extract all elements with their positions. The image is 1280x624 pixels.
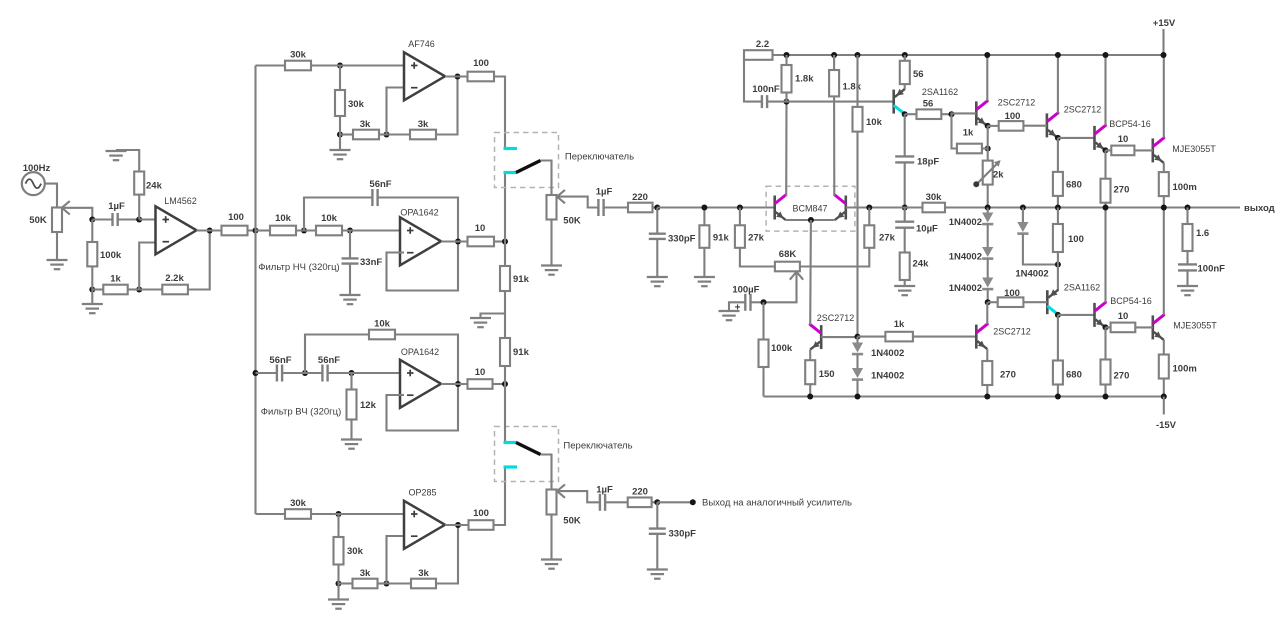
svg-text:2.2k: 2.2k bbox=[165, 273, 184, 284]
transistor Q9 BCP54-16 bbox=[1095, 296, 1152, 327]
capacitor C14 100nF bbox=[1178, 251, 1225, 275]
svg-text:1N4002: 1N4002 bbox=[1015, 269, 1048, 280]
svg-text:выход: выход bbox=[1244, 203, 1275, 214]
transistor Q10 MJE3055T bbox=[1153, 315, 1217, 340]
node X junction bbox=[654, 205, 660, 211]
svg-text:2SC2712: 2SC2712 bbox=[1064, 105, 1102, 115]
svg-text:91k: 91k bbox=[513, 347, 530, 358]
svg-text:100nF: 100nF bbox=[1198, 264, 1226, 275]
wire source to pot bbox=[45, 184, 57, 208]
resistor R38 1k bbox=[952, 114, 982, 153]
feedback loop U3 -in bbox=[387, 242, 459, 291]
svg-text:-15V: -15V bbox=[1156, 420, 1177, 431]
svg-text:2SA1162: 2SA1162 bbox=[1064, 283, 1100, 293]
wire node N to switch lower contact bbox=[504, 174, 506, 242]
svg-text:56nF: 56nF bbox=[318, 355, 340, 366]
svg-text:100k: 100k bbox=[100, 250, 122, 261]
potentiometer RV4 68K bbox=[775, 249, 800, 271]
vertical bus wire bbox=[254, 66, 256, 515]
ground below C3 bbox=[340, 264, 361, 305]
wire node D to LM4562 -in bbox=[139, 243, 155, 290]
SW1 lower contact bbox=[504, 171, 518, 174]
svg-text:56nF: 56nF bbox=[369, 179, 391, 190]
op-amp U5 OP285 bbox=[404, 488, 445, 549]
resistor R50 100m bbox=[1159, 340, 1197, 379]
node AN2 junction bbox=[855, 334, 861, 340]
svg-text:30k: 30k bbox=[290, 50, 307, 61]
svg-text:1N4002: 1N4002 bbox=[949, 252, 982, 263]
capacitor C11 100nF bbox=[744, 55, 780, 108]
diode D1 1N4002 bbox=[949, 208, 994, 229]
capacitor C2 56nF feedback bbox=[304, 179, 458, 242]
transistor Q1 BCM847 left bbox=[775, 195, 786, 220]
node AF junction bbox=[855, 52, 861, 58]
Q7 base wire bbox=[1134, 149, 1152, 151]
resistor R40 10 bbox=[1111, 134, 1134, 155]
SW2 upper contact bbox=[504, 441, 518, 444]
Q11 base wire bbox=[821, 336, 857, 338]
ground below RV2 bbox=[541, 220, 562, 275]
label HP filter bbox=[261, 407, 342, 418]
ground below R27 bbox=[694, 248, 715, 286]
svg-text:91k: 91k bbox=[713, 233, 730, 244]
node B junction bbox=[136, 217, 142, 223]
svg-text:2SC2712: 2SC2712 bbox=[998, 98, 1036, 108]
op-amp U1 LM4562 bbox=[156, 196, 197, 254]
wire R54 to bottom rail bbox=[986, 385, 988, 397]
resistor R52 150 bbox=[805, 350, 834, 385]
Q12 emitter wire bbox=[986, 349, 988, 361]
svg-text:2SC2712: 2SC2712 bbox=[817, 313, 855, 323]
node AR junction bbox=[1055, 252, 1061, 290]
label выход bbox=[1244, 203, 1275, 214]
diode D6 1N4002 bbox=[852, 354, 904, 381]
resistor R26 91k bbox=[500, 314, 530, 367]
node AU junction bbox=[1185, 205, 1191, 211]
wire R17 to node S bbox=[493, 383, 506, 385]
svg-text:30k: 30k bbox=[290, 498, 307, 509]
wire node I to AF746 -in bbox=[387, 88, 405, 135]
resistor R12 10k bbox=[256, 213, 297, 235]
Q12 base wire bbox=[913, 336, 976, 338]
Q6 collector wire bbox=[1103, 52, 1109, 125]
resistor R41 270 bbox=[1101, 150, 1130, 202]
svg-text:2k: 2k bbox=[993, 170, 1004, 181]
resistor R46 100 bbox=[1053, 205, 1084, 253]
capacitor C4 56nF bbox=[256, 355, 292, 382]
resistor R33 10k bbox=[853, 55, 883, 132]
resistor R27 91k bbox=[699, 205, 729, 248]
svg-text:OPA1642: OPA1642 bbox=[400, 208, 438, 218]
wire 68K right to 27k bbox=[800, 248, 869, 267]
svg-text:1k: 1k bbox=[894, 319, 905, 330]
resistor R28 27k bbox=[735, 205, 765, 248]
node AB emitters junction bbox=[808, 217, 814, 223]
transistor Q4 2SC2712 bbox=[976, 98, 1035, 126]
svg-text:1k: 1k bbox=[110, 274, 121, 285]
svg-text:3k: 3k bbox=[360, 568, 371, 579]
svg-text:10k: 10k bbox=[374, 319, 391, 330]
op-amp U4 OPA1642 bbox=[400, 347, 441, 408]
transistor Q2 BCM847 right bbox=[835, 195, 846, 220]
svg-text:1N4002: 1N4002 bbox=[949, 217, 982, 228]
svg-text:100nF: 100nF bbox=[752, 84, 780, 95]
base line to 2SA1162 bbox=[787, 101, 894, 103]
node J AF746 output bbox=[445, 74, 468, 80]
resistor R7 30k bbox=[256, 50, 312, 71]
diode D2 1N4002 bbox=[949, 224, 994, 262]
svg-text:50K: 50K bbox=[29, 215, 47, 226]
node G junction bbox=[311, 63, 404, 69]
node AK Q4 emitter bbox=[985, 123, 999, 129]
diode D3 1N4002 bbox=[949, 259, 994, 294]
label analog output bbox=[702, 498, 852, 509]
svg-text:30k: 30k bbox=[348, 99, 365, 110]
svg-text:56: 56 bbox=[913, 69, 924, 80]
node AN Q6 emitter bbox=[1103, 147, 1112, 153]
svg-text:100: 100 bbox=[1005, 111, 1021, 122]
BCM847 dashed box bbox=[766, 186, 855, 231]
svg-text:3k: 3k bbox=[360, 119, 371, 130]
transistor Q8 2SA1162 bbox=[1047, 283, 1100, 315]
capacitor C6 1uF bbox=[596, 187, 628, 217]
resistor R18 30k bbox=[256, 498, 312, 519]
svg-text:1µF: 1µF bbox=[596, 485, 613, 496]
wire R11 to switch upper contact bbox=[494, 77, 505, 148]
node T junction bbox=[311, 511, 404, 517]
resistor R14 10 bbox=[468, 223, 495, 246]
resistor R47 680 bbox=[1053, 315, 1082, 385]
resistor R36 24k bbox=[900, 228, 929, 280]
diode D5 1N4002 bbox=[852, 337, 904, 359]
node S junction bbox=[502, 381, 508, 387]
svg-text:100: 100 bbox=[473, 58, 489, 69]
rail dot 680b bbox=[1055, 394, 1061, 400]
wire RV2 wiper to C6 bbox=[558, 197, 598, 208]
svg-text:100m: 100m bbox=[1173, 182, 1197, 193]
wire node V to OP285 -in bbox=[387, 536, 405, 584]
RV4 wiper bbox=[764, 272, 804, 303]
transistor Q12 2SC2712 bbox=[976, 324, 1030, 349]
svg-text:AF746: AF746 bbox=[408, 39, 435, 49]
potentiometer RV2 50K bbox=[547, 190, 581, 227]
node AE junction bbox=[831, 52, 837, 58]
diode D4 1N4002 bbox=[1015, 205, 1058, 280]
bottom rail -15V bbox=[764, 395, 1164, 397]
potentiometer RV1 50K bbox=[29, 201, 70, 232]
Q9 collector wire bbox=[1103, 205, 1109, 303]
SW2 pole wire bbox=[541, 455, 552, 490]
resistor R30 2.2 bbox=[744, 39, 773, 60]
ground left of C10 bbox=[719, 302, 746, 320]
capacitor C1 1uF bbox=[92, 201, 139, 226]
wire 10k to U4 out bbox=[395, 335, 458, 385]
ground above 24k bbox=[106, 151, 127, 160]
node C junction bbox=[89, 287, 95, 293]
svg-text:100: 100 bbox=[1068, 234, 1084, 245]
node U junction bbox=[336, 565, 342, 587]
svg-text:56nF: 56nF bbox=[269, 355, 291, 366]
transistor Q3 2SA1162 bbox=[894, 84, 958, 114]
node AC junction bbox=[784, 52, 790, 58]
node Q junction bbox=[328, 370, 400, 376]
resistor R24 220 bbox=[628, 487, 652, 508]
node AD junction bbox=[767, 93, 789, 105]
label SW2 bbox=[563, 441, 632, 452]
Q5 collector wire bbox=[1055, 52, 1061, 113]
svg-text:50K: 50K bbox=[563, 516, 581, 527]
capacitor C7 330pF bbox=[649, 208, 696, 245]
node AJ junction bbox=[902, 205, 908, 211]
node I junction bbox=[379, 132, 390, 138]
wire R42 to main line bbox=[1163, 196, 1165, 207]
node AA junction bbox=[761, 299, 767, 305]
resistor R53 1k bbox=[858, 319, 913, 341]
wire node S to SW2 upper bbox=[504, 384, 506, 441]
resistor R16 12k bbox=[347, 373, 377, 420]
wire 3k to AF746 out bbox=[436, 77, 458, 135]
svg-text:220: 220 bbox=[632, 192, 648, 203]
-15V stem bbox=[1163, 397, 1165, 415]
resistor R11 100 bbox=[468, 58, 495, 81]
svg-text:10: 10 bbox=[475, 223, 486, 234]
Q4 base wire bbox=[952, 112, 977, 115]
feedback loop U4 -in bbox=[387, 384, 459, 431]
wire R26 to node S bbox=[504, 366, 506, 384]
svg-text:24k: 24k bbox=[913, 259, 930, 270]
resistor R25 91k bbox=[500, 242, 530, 292]
svg-text:LM4562: LM4562 bbox=[164, 196, 197, 206]
svg-text:3k: 3k bbox=[418, 568, 429, 579]
node N junction bbox=[502, 239, 508, 245]
rail dot 150 bbox=[807, 394, 813, 400]
node Z junction bbox=[504, 291, 506, 314]
node Y junction bbox=[652, 499, 661, 505]
wire R41 to main line bbox=[1104, 203, 1106, 208]
svg-text:10k: 10k bbox=[866, 117, 883, 128]
resistor R32 1.8k bbox=[829, 55, 862, 96]
node AQ junction bbox=[985, 289, 991, 305]
ground below RV1 bbox=[47, 232, 68, 269]
svg-text:100: 100 bbox=[473, 508, 489, 519]
signal source V1 100Hz bbox=[22, 163, 51, 195]
svg-text:12k: 12k bbox=[360, 400, 377, 411]
SW2 lower contact bbox=[504, 465, 518, 468]
Q2 collector wire bbox=[833, 96, 835, 196]
svg-text:680: 680 bbox=[1066, 370, 1082, 381]
svg-text:100m: 100m bbox=[1173, 364, 1197, 375]
SW1 pole wire bbox=[541, 161, 552, 195]
wire D6 to bottom rail bbox=[856, 380, 858, 397]
wire R29 to bottom rail bbox=[762, 367, 764, 397]
capacitor C5 56nF bbox=[318, 355, 340, 382]
svg-text:100k: 100k bbox=[771, 343, 793, 354]
node AM Q5 emitter bbox=[1055, 135, 1095, 141]
wire R35 to node AI bbox=[941, 113, 951, 115]
resistor R3 24k bbox=[134, 172, 162, 220]
svg-text:30k: 30k bbox=[347, 546, 364, 557]
resistor R10 3k bbox=[387, 119, 437, 139]
node D junction bbox=[128, 287, 143, 293]
Q4 collector wire bbox=[984, 52, 990, 101]
rail dot 270b bbox=[1103, 394, 1109, 400]
node R U4 output bbox=[441, 381, 468, 387]
ground below node H bbox=[330, 135, 351, 160]
svg-text:270: 270 bbox=[1114, 185, 1130, 196]
resistor R15 10k feedback bbox=[305, 319, 395, 374]
ground below R16 bbox=[341, 420, 362, 449]
Q11 collector wire bbox=[809, 220, 812, 325]
ground left of node Z bbox=[470, 314, 505, 328]
svg-text:Переключатель: Переключатель bbox=[565, 152, 634, 163]
+15V label bbox=[1153, 18, 1176, 29]
resistor R23 220 bbox=[628, 192, 653, 212]
wire RV3 wiper to C8 bbox=[558, 491, 600, 502]
resistor R54 270 bbox=[982, 361, 1016, 385]
resistor R5 2.2k bbox=[139, 273, 188, 294]
svg-text:2.2: 2.2 bbox=[756, 39, 769, 50]
svg-text:1µF: 1µF bbox=[596, 187, 613, 198]
Q7 collector wire bbox=[1161, 52, 1167, 138]
ground below R36 bbox=[894, 280, 915, 295]
svg-text:10: 10 bbox=[475, 367, 486, 378]
wire R28 to 68K pot bbox=[740, 248, 775, 267]
node A junction bbox=[89, 217, 95, 223]
resistor R48 10 bbox=[1111, 311, 1136, 332]
node O bus-HP junction bbox=[253, 370, 259, 376]
wire 100k to node C bbox=[91, 266, 93, 289]
resistor R22 100 bbox=[469, 508, 494, 530]
wire 3k to OP285 out bbox=[436, 525, 458, 584]
svg-text:100: 100 bbox=[228, 212, 244, 223]
wire RV1 wiper to node A bbox=[63, 208, 92, 220]
resistor R21 3k bbox=[387, 568, 437, 588]
node AH Q3 collector bbox=[902, 111, 917, 117]
svg-text:27k: 27k bbox=[879, 233, 896, 244]
Q5 base wire bbox=[1023, 125, 1047, 127]
ground below C9 bbox=[647, 534, 668, 579]
transistor Q5 2SC2712 bbox=[1047, 105, 1101, 138]
node K junction bbox=[296, 228, 316, 234]
svg-text:24k: 24k bbox=[146, 181, 163, 192]
resistor R29 100k bbox=[759, 302, 793, 367]
svg-text:30k: 30k bbox=[926, 192, 943, 203]
wire R22 to switch2 lower contact bbox=[494, 469, 506, 526]
svg-text:50K: 50K bbox=[563, 216, 581, 227]
capacitor C10 100uF bbox=[732, 285, 763, 314]
svg-text:330pF: 330pF bbox=[668, 234, 696, 245]
switch SW1 dashed box bbox=[495, 133, 559, 188]
top rail bbox=[744, 54, 1164, 56]
wire 2.2k to LM4562 out bbox=[188, 231, 210, 290]
wire R23 to main line bbox=[653, 206, 658, 208]
node AP junction bbox=[985, 205, 991, 211]
node AG junction bbox=[902, 52, 908, 58]
resistor R42 100m bbox=[1159, 163, 1197, 196]
Q10 collector wire bbox=[1161, 205, 1167, 315]
wire R14 to node N bbox=[494, 240, 505, 242]
Q8 base wire bbox=[1023, 301, 1047, 303]
node AI junction bbox=[949, 111, 955, 117]
resistor R6 100 bbox=[222, 212, 248, 235]
resistor R45 100 bbox=[988, 288, 1024, 307]
svg-text:68K: 68K bbox=[779, 249, 797, 260]
node F bus-LP junction bbox=[253, 228, 259, 234]
svg-text:100: 100 bbox=[1004, 288, 1020, 299]
svg-text:Фильтр НЧ (320гц): Фильтр НЧ (320гц) bbox=[258, 262, 339, 273]
svg-text:1k: 1k bbox=[963, 128, 974, 139]
transistor Q6 BCP54-16 bbox=[1095, 119, 1151, 150]
resistor R19 30k bbox=[334, 514, 364, 565]
svg-text:270: 270 bbox=[1000, 370, 1016, 381]
svg-text:27k: 27k bbox=[748, 233, 765, 244]
svg-text:56: 56 bbox=[923, 99, 934, 110]
wire R50 to bottom rail bbox=[1163, 379, 1165, 397]
svg-text:MJE3055T: MJE3055T bbox=[1172, 144, 1216, 154]
svg-text:Выход на аналогичный усилитель: Выход на аналогичный усилитель bbox=[702, 498, 852, 509]
svg-text:220: 220 bbox=[632, 487, 648, 498]
resistor R49 270 bbox=[1101, 327, 1130, 384]
main input line to BCM847 bbox=[657, 206, 774, 208]
svg-text:100Hz: 100Hz bbox=[23, 163, 51, 174]
op-amp U2 AF746 bbox=[404, 39, 445, 100]
rail dot diodes bbox=[855, 394, 861, 400]
node L junction bbox=[342, 228, 400, 234]
-15V label bbox=[1156, 420, 1177, 431]
Q12 collector wire bbox=[986, 302, 988, 324]
node AL junction bbox=[982, 126, 991, 161]
svg-text:10: 10 bbox=[1118, 311, 1129, 322]
node M U3 output bbox=[441, 239, 468, 245]
resistor R39 680 bbox=[1053, 138, 1082, 196]
svg-text:680: 680 bbox=[1066, 180, 1082, 191]
wire 24k to ground bbox=[116, 150, 139, 172]
svg-text:330pF: 330pF bbox=[669, 529, 697, 540]
ground below C7 bbox=[647, 239, 668, 286]
ground below RV3 bbox=[541, 515, 562, 569]
node P junction bbox=[282, 370, 322, 376]
resistor R51 1.6 bbox=[1183, 208, 1210, 252]
svg-text:33nF: 33nF bbox=[360, 257, 382, 268]
transistor Q7 MJE3055T bbox=[1153, 138, 1216, 163]
svg-text:1N4002: 1N4002 bbox=[871, 371, 904, 382]
Q10 base wire bbox=[1135, 326, 1153, 328]
wire node B to LM4562 +in bbox=[139, 218, 155, 220]
node AT Q9 emitter bbox=[1103, 324, 1111, 330]
ground below node C bbox=[82, 290, 103, 314]
svg-text:OP285: OP285 bbox=[408, 488, 436, 498]
svg-text:1.6: 1.6 bbox=[1196, 228, 1209, 239]
svg-text:Фильтр ВЧ (320гц): Фильтр ВЧ (320гц) bbox=[261, 407, 342, 418]
svg-text:BCM847: BCM847 bbox=[792, 204, 827, 214]
node E LM4562 output bbox=[197, 228, 222, 234]
svg-text:150: 150 bbox=[819, 369, 835, 380]
wire RV5 to main line bbox=[987, 185, 989, 208]
svg-text:270: 270 bbox=[1114, 371, 1130, 382]
SW2 lever bbox=[516, 443, 541, 455]
svg-text:18pF: 18pF bbox=[917, 157, 939, 168]
node V junction bbox=[378, 581, 390, 587]
resistor R35 56 bbox=[917, 99, 942, 120]
resistor R34 56 bbox=[900, 55, 924, 84]
+15V stem bbox=[1162, 29, 1164, 55]
svg-text:3k: 3k bbox=[418, 119, 429, 130]
svg-text:91k: 91k bbox=[513, 274, 530, 285]
wire R6 to bus bbox=[248, 229, 256, 231]
wire R47 to bottom rail bbox=[1057, 385, 1059, 397]
svg-text:1µF: 1µF bbox=[108, 201, 125, 212]
svg-text:10k: 10k bbox=[275, 213, 292, 224]
